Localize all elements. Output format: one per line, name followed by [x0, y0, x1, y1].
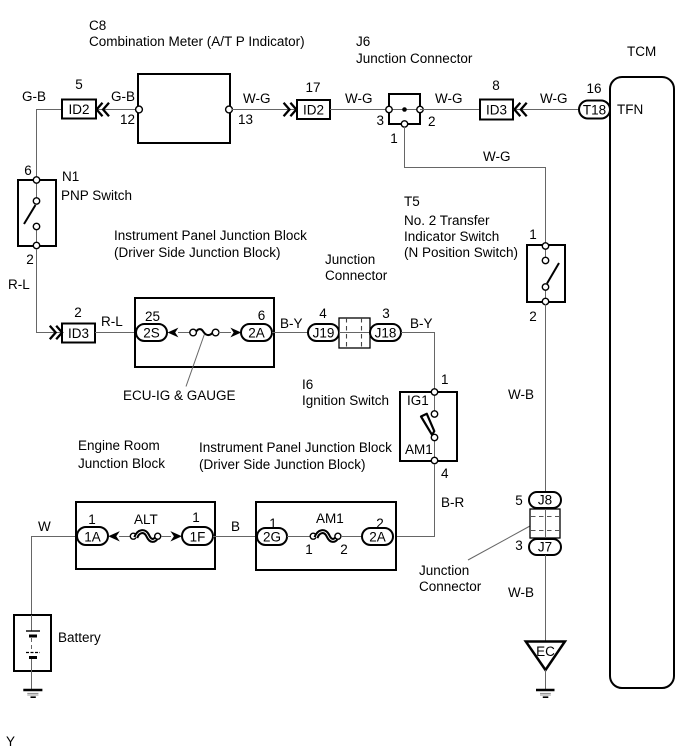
- svg-text:J6: J6: [356, 34, 370, 49]
- svg-text:ID3: ID3: [486, 103, 507, 118]
- label Junction Connector mid: [325, 252, 388, 283]
- svg-text:EC: EC: [536, 644, 555, 659]
- connector ID2 pin 17: [297, 80, 330, 119]
- wire B-Y 2A to J19: [272, 332, 308, 334]
- svg-text:J8: J8: [538, 493, 552, 508]
- svg-text:B-R: B-R: [441, 495, 465, 510]
- ignition switch I6: [400, 372, 457, 481]
- wire B-R IG1 to 2A lower: [396, 464, 435, 537]
- leader line fuse to label: [186, 335, 204, 387]
- chevron arrows into ID3: [514, 103, 526, 116]
- svg-text:4: 4: [441, 466, 449, 481]
- connector 1A pin 1: [77, 512, 108, 545]
- svg-text:5: 5: [515, 493, 523, 508]
- svg-text:TFN: TFN: [617, 102, 643, 117]
- wire B 1F to 2G: [213, 536, 257, 538]
- transfer indicator switch T5: [527, 227, 565, 324]
- connector 2A pin 2 lower: [362, 516, 393, 545]
- wire R-L ID3 to 2S: [95, 332, 137, 334]
- pin 13: [226, 106, 233, 113]
- wire G-B from ID2 to meter pin 12: [96, 109, 136, 111]
- connector 2A pin 6: [241, 308, 272, 341]
- svg-text:J19: J19: [313, 326, 335, 341]
- svg-text:13: 13: [238, 112, 253, 127]
- pin 12: [136, 106, 143, 113]
- label I6 Ignition Switch: [302, 377, 389, 408]
- svg-text:1: 1: [192, 510, 200, 525]
- connector 1F pin 1: [182, 510, 213, 545]
- connector ID3 pin 2: [62, 305, 95, 343]
- svg-text:2: 2: [529, 309, 537, 324]
- wire B-Y J18 to IG1: [401, 333, 435, 390]
- svg-text:3: 3: [382, 306, 390, 321]
- svg-text:R-L: R-L: [101, 314, 123, 329]
- svg-text:B-Y: B-Y: [280, 316, 303, 331]
- label Instrument Panel Junction Block upper: [114, 228, 307, 260]
- junction connector J6: [376, 94, 435, 146]
- wire W-G meter to ID2 second: [232, 109, 297, 111]
- engine room junction block box: [76, 502, 215, 569]
- label Engine Room Junction Block: [78, 438, 165, 471]
- wire W-B T5 to J8: [545, 304, 547, 492]
- svg-text:Connector: Connector: [419, 579, 482, 594]
- fuse ECU-IG and GAUGE: [190, 329, 219, 336]
- svg-text:AM1: AM1: [316, 511, 344, 526]
- svg-text:1: 1: [88, 512, 96, 527]
- svg-text:(Driver Side Junction Block): (Driver Side Junction Block): [199, 457, 366, 472]
- arrow into 1F: [170, 531, 182, 541]
- junction connector block lower: [530, 509, 560, 538]
- connector J7 pin 3: [515, 538, 561, 555]
- svg-text:T18: T18: [583, 103, 606, 118]
- svg-text:Junction Block: Junction Block: [78, 456, 165, 471]
- connector 2S pin 25: [136, 309, 167, 341]
- svg-text:Junction: Junction: [325, 252, 375, 267]
- connector ID3 pin 8: [480, 78, 513, 120]
- TCM module box: [610, 77, 674, 688]
- svg-text:12: 12: [120, 112, 135, 127]
- label J6 Junction Connector: [356, 34, 473, 66]
- fusible link AM1: [305, 511, 348, 557]
- wire to ALT fusible link: [119, 536, 130, 538]
- connector J8 pin 5: [515, 492, 561, 508]
- svg-text:AM1: AM1: [405, 442, 433, 457]
- label T5 switch: [404, 194, 518, 260]
- label Instrument Panel Junction Block lower: [199, 440, 392, 472]
- svg-text:ECU-IG & GAUGE: ECU-IG & GAUGE: [123, 388, 236, 403]
- svg-text:G-B: G-B: [111, 89, 135, 104]
- wire W-G ID3 to TCM T18: [513, 109, 579, 111]
- svg-text:ID2: ID2: [303, 103, 324, 118]
- battery: [14, 615, 51, 689]
- chevron arrows into ID2 second: [284, 103, 297, 116]
- label C8 Combination Meter: [89, 18, 305, 49]
- svg-text:3: 3: [376, 113, 384, 128]
- wire R-L PNP pin2 down to ID3: [37, 249, 63, 333]
- svg-text:1: 1: [390, 131, 398, 146]
- svg-text:Indicator Switch: Indicator Switch: [404, 229, 499, 244]
- svg-text:1: 1: [441, 372, 449, 387]
- connector 2G pin 1: [257, 516, 287, 545]
- svg-text:J18: J18: [375, 326, 397, 341]
- svg-text:Junction Connector: Junction Connector: [356, 51, 473, 66]
- instrument panel junction block box lower: [256, 502, 396, 570]
- svg-text:6: 6: [24, 163, 32, 178]
- svg-text:2G: 2G: [263, 530, 281, 545]
- ground below battery: [23, 690, 42, 697]
- ground EC: [526, 642, 565, 698]
- svg-text:2: 2: [74, 305, 82, 320]
- svg-text:6: 6: [258, 308, 266, 323]
- svg-text:4: 4: [319, 306, 327, 321]
- instrument panel junction block box mid: [135, 298, 274, 367]
- wire W-G ID2 to J6 pin 3: [330, 109, 389, 111]
- svg-text:2S: 2S: [143, 326, 160, 341]
- svg-text:Connector: Connector: [325, 268, 388, 283]
- svg-text:Instrument Panel Junction Bloc: Instrument Panel Junction Block: [199, 440, 392, 455]
- svg-text:5: 5: [75, 77, 83, 92]
- svg-text:25: 25: [145, 309, 160, 324]
- connector T18 pin 16 TFN: [579, 81, 643, 119]
- svg-text:W-G: W-G: [435, 91, 463, 106]
- svg-text:J7: J7: [538, 540, 552, 555]
- wire G-B from node to ID2: [37, 110, 63, 178]
- svg-text:ID2: ID2: [68, 102, 89, 117]
- svg-text:1A: 1A: [84, 530, 101, 545]
- svg-text:W-G: W-G: [540, 91, 568, 106]
- svg-text:Y: Y: [6, 734, 15, 748]
- wire W-G J6 pin 1 down and across to T5: [405, 127, 546, 243]
- wire fusible link to arrow: [161, 536, 171, 538]
- wire W battery to 1A: [32, 537, 78, 616]
- connector J19 pin 4: [308, 306, 339, 341]
- svg-text:ALT: ALT: [134, 512, 158, 527]
- svg-text:16: 16: [586, 81, 601, 96]
- svg-text:(N Position Switch): (N Position Switch): [404, 245, 518, 260]
- svg-text:(Driver Side Junction Block): (Driver Side Junction Block): [114, 245, 281, 260]
- wire W-G J6 pin 2 to ID3: [420, 109, 480, 111]
- svg-text:2: 2: [428, 114, 436, 129]
- svg-text:TCM: TCM: [627, 44, 656, 59]
- svg-text:2: 2: [26, 252, 34, 267]
- svg-text:W-B: W-B: [508, 585, 534, 600]
- wire fuse to arrow: [219, 332, 232, 334]
- svg-text:B: B: [231, 519, 240, 534]
- svg-text:3: 3: [515, 538, 523, 553]
- wire AM1 fuse to 2A: [341, 536, 362, 538]
- combination meter box C8: [138, 74, 230, 143]
- chevron arrows into ID2: [97, 103, 109, 116]
- wire 2G to AM1 fuse: [287, 536, 310, 538]
- svg-text:1F: 1F: [190, 530, 206, 545]
- label Junction Connector lower: [419, 563, 482, 594]
- svg-text:IG1: IG1: [407, 393, 429, 408]
- arrow into 2A: [230, 328, 241, 338]
- svg-text:W-G: W-G: [483, 149, 511, 164]
- svg-text:Instrument Panel Junction Bloc: Instrument Panel Junction Block: [114, 228, 307, 243]
- svg-text:Ignition Switch: Ignition Switch: [302, 393, 389, 408]
- label N1 PNP Switch: [61, 169, 132, 203]
- svg-text:C8: C8: [89, 18, 106, 33]
- svg-text:2: 2: [340, 542, 348, 557]
- svg-text:No. 2 Transfer: No. 2 Transfer: [404, 213, 490, 228]
- svg-text:8: 8: [492, 78, 500, 93]
- chevron arrows into ID3 lower: [50, 326, 62, 339]
- svg-text:N1: N1: [62, 169, 79, 184]
- svg-text:W-B: W-B: [508, 387, 534, 402]
- svg-text:W-G: W-G: [345, 91, 373, 106]
- svg-text:ID3: ID3: [68, 326, 89, 341]
- wire arrow to fuse: [178, 332, 190, 334]
- svg-text:W-G: W-G: [243, 91, 271, 106]
- svg-text:G-B: G-B: [22, 89, 46, 104]
- svg-text:Battery: Battery: [58, 630, 101, 645]
- svg-text:Engine Room: Engine Room: [78, 438, 160, 453]
- junction connector block mid: [339, 318, 370, 348]
- svg-text:Combination Meter (A/T P Indic: Combination Meter (A/T P Indicator): [89, 34, 305, 49]
- PNP switch N1: [18, 177, 56, 249]
- wire W-B J7 to EC: [545, 555, 547, 641]
- arrow into 1A: [108, 531, 120, 541]
- svg-text:1: 1: [529, 227, 537, 242]
- svg-text:2A: 2A: [369, 530, 386, 545]
- svg-text:B-Y: B-Y: [410, 316, 433, 331]
- svg-text:2A: 2A: [248, 326, 265, 341]
- connector ID2 pin 5: [62, 77, 96, 119]
- svg-text:1: 1: [305, 542, 313, 557]
- svg-text:T5: T5: [404, 194, 420, 209]
- svg-text:PNP Switch: PNP Switch: [61, 188, 132, 203]
- svg-text:R-L: R-L: [8, 277, 30, 292]
- fusible link ALT: [130, 512, 160, 540]
- svg-text:I6: I6: [302, 377, 313, 392]
- svg-text:W: W: [38, 519, 51, 534]
- svg-text:Junction: Junction: [419, 563, 469, 578]
- connector J18 pin 3: [370, 306, 401, 341]
- svg-text:17: 17: [305, 80, 320, 95]
- leader line to junction connector block: [468, 526, 530, 560]
- arrow into 2S: [168, 328, 179, 338]
